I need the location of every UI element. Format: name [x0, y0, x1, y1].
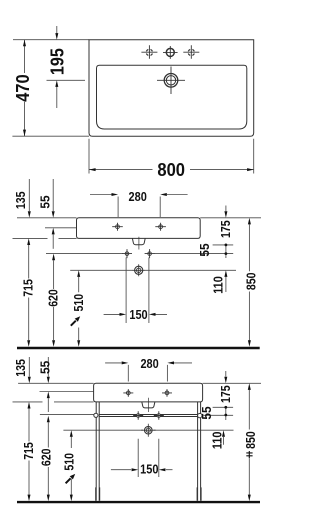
- arrow 175 down: [224, 211, 227, 218]
- bv fixing hole left: [133, 411, 143, 420]
- arrow 150 left-tip: [120, 313, 127, 316]
- arrow 850 up: [248, 218, 251, 225]
- bv arrow 715 down: [28, 495, 31, 502]
- mv drain center line: [70, 269, 236, 271]
- svg-text:55: 55: [199, 406, 214, 419]
- bv fixing hole right: [154, 411, 164, 420]
- arrows middle view: [27, 193, 251, 347]
- mv chain line 244.9-258: [225, 245, 227, 258]
- bv node dot 415: [224, 414, 227, 417]
- bv dim 850 line: [248, 390, 250, 495]
- right joint: [198, 413, 202, 417]
- svg-text:55: 55: [197, 243, 212, 256]
- mv dim 175 upper shaft: [225, 206, 227, 212]
- mv symbol arrow-ne for 510: [71, 316, 80, 325]
- mv node line 175/55: [213, 244, 234, 246]
- bv dim 135 shaft: [28, 357, 30, 377]
- faucet hole left (plan): [141, 45, 157, 59]
- arrow 470 top: [23, 40, 26, 47]
- arrow 850 down: [248, 340, 251, 347]
- arrow 510 down: [77, 340, 80, 347]
- plan view: extension line top: [13, 39, 89, 41]
- bv drain circle: [141, 424, 155, 437]
- bv dim 715 line: [28, 409, 30, 496]
- bv arrow 850 up: [248, 383, 251, 390]
- bv arrow 150 left-tip: [132, 468, 139, 471]
- bv dim 150 line: [111, 469, 173, 471]
- mv dim 715 line: [28, 245, 30, 340]
- arrow 510 up: [77, 270, 80, 277]
- bv arrow 620 down: [47, 495, 50, 502]
- arrow 55 up: [52, 228, 55, 235]
- mv dim 510 line: [78, 277, 80, 340]
- bv extension top edge right: [203, 382, 261, 384]
- mv floor line: [17, 347, 260, 349]
- mv dim 55 bottom shaft: [52, 234, 54, 248]
- bv dim 280 lines: [105, 362, 192, 364]
- mv faucet cross right: [155, 223, 166, 231]
- bv floor line: [17, 501, 260, 503]
- bv chain line 407.3-420: [225, 407, 227, 420]
- bv node dot 407.3: [224, 406, 227, 409]
- bv dim 55 top shaft: [47, 357, 49, 377]
- bv dim 150 ext lines: [138, 439, 159, 477]
- svg-text:175: 175: [218, 220, 233, 238]
- bv node line 415: [204, 414, 234, 416]
- drain (plan): [157, 67, 185, 95]
- bv drain center line: [63, 429, 233, 431]
- dim 800 line: [89, 169, 254, 171]
- bv faucet cross right: [162, 389, 172, 397]
- svg-text:470: 470: [13, 74, 33, 102]
- bv faucet cross left: [123, 389, 133, 397]
- svg-text:280: 280: [140, 356, 158, 371]
- bv arrow 175 down: [224, 377, 227, 384]
- arrow 280 left-tip: [112, 193, 119, 196]
- bv arrow 135 down: [28, 377, 31, 384]
- arrow 110 up: [224, 270, 227, 277]
- bv dim 280 ext lines: [128, 365, 167, 382]
- washbasin front outline (bottom view): [94, 383, 203, 402]
- svg-text:175: 175: [218, 385, 233, 403]
- bv arrow 850 down: [248, 495, 251, 502]
- svg-text:850: 850: [243, 273, 258, 291]
- svg-text:800: 800: [157, 160, 185, 180]
- bv arrow 110 up: [222, 430, 225, 437]
- bv arrow 55 down: [47, 377, 50, 384]
- right foot: [197, 487, 201, 500]
- left foot: [96, 487, 100, 500]
- node dot 244.9: [225, 244, 228, 247]
- svg-text:850: 850: [243, 431, 258, 449]
- left leg: [96, 402, 99, 501]
- mv drain circle: [133, 264, 145, 276]
- dim 195 lines: [56, 26, 58, 108]
- arrows bottom view: [28, 361, 251, 501]
- bv arrow 715 up: [28, 402, 31, 409]
- svg-text:110: 110: [210, 432, 225, 450]
- bv dim 620 line: [47, 422, 49, 495]
- plan view: extension line drain center: [47, 79, 86, 81]
- mv faucet cross left: [112, 223, 123, 231]
- svg-text:150: 150: [129, 307, 147, 322]
- bv arrow 510 down: [70, 495, 73, 502]
- mv dim 150 line: [104, 313, 167, 315]
- arrow 195 bottom: [55, 80, 58, 87]
- right leg: [198, 402, 201, 501]
- bv dim 175 upper shaft: [225, 371, 227, 377]
- mv extension tap deck: [45, 227, 77, 229]
- bv extension top edge left: [18, 382, 94, 384]
- arrow 470 bottom: [23, 130, 26, 137]
- arrows plan: [23, 33, 254, 171]
- arrow 55 down: [52, 211, 55, 218]
- bv dim 510 line: [70, 436, 72, 495]
- svg-text:620: 620: [39, 449, 54, 467]
- bv extension body bottom: [13, 401, 94, 403]
- svg-text:280: 280: [129, 189, 147, 204]
- mv extension top edge left: [17, 217, 77, 219]
- bv rail ext line left: [40, 413, 95, 415]
- mv fixing hole left: [122, 249, 132, 258]
- svg-text:110: 110: [210, 276, 225, 294]
- dim 800 extension lines: [89, 139, 254, 174]
- svg-text:510: 510: [62, 453, 77, 471]
- svg-text:715: 715: [21, 442, 36, 460]
- frame rail: [99, 415, 197, 417]
- washbasin plan outer outline: [89, 40, 254, 137]
- mv fixing holes line: [46, 253, 233, 255]
- bv drain cup: [142, 402, 155, 408]
- bv arrow 510 up: [70, 430, 73, 437]
- bv extension tap deck: [40, 391, 94, 393]
- faucet hole right (plan): [183, 45, 199, 59]
- svg-text:620: 620: [46, 289, 61, 307]
- bv arrow 150 right-tip: [159, 468, 166, 471]
- arrow 800 right: [247, 168, 254, 171]
- bv dim 110 shaft: [223, 437, 225, 445]
- bv arrow 620 up: [47, 416, 50, 423]
- mv dim 55 top shaft: [52, 179, 54, 211]
- node dot 253.6: [225, 252, 228, 255]
- mv dim 280 ext lines: [118, 197, 160, 218]
- bv arrow 280 left-tip: [122, 361, 129, 364]
- arrow 280 right-tip: [160, 193, 167, 196]
- svg-text:195: 195: [48, 48, 68, 75]
- bv arrow 280 right-tip: [167, 361, 174, 364]
- arrow 800 left: [89, 168, 96, 171]
- svg-text:715: 715: [20, 279, 35, 297]
- arrow 195 top: [55, 33, 58, 40]
- bv arrow 55 up: [47, 392, 50, 399]
- svg-text:55: 55: [38, 195, 53, 208]
- svg-text:510: 510: [71, 294, 86, 312]
- arrow 620 up: [52, 254, 55, 261]
- svg-text:55: 55: [38, 361, 53, 374]
- mv dim 850 line: [248, 224, 250, 341]
- arrow 620 down: [52, 340, 55, 347]
- arrow 135 down: [28, 211, 31, 218]
- mv extension body bottom: [13, 237, 77, 239]
- washbasin front outline (middle view): [77, 218, 201, 239]
- bv node line 407.3: [213, 406, 234, 408]
- arrow 715 down: [27, 340, 30, 347]
- arrow 150 right-tip: [149, 313, 156, 316]
- arrow 715 up: [27, 238, 30, 245]
- mv dim 280 lines: [90, 194, 188, 196]
- washbasin plan inner basin: [97, 65, 247, 129]
- faucet hole center (plan): [163, 46, 178, 59]
- svg-text:135: 135: [13, 192, 28, 210]
- mv drain cup: [132, 238, 145, 244]
- mv fixing hole right: [145, 249, 155, 258]
- left joint: [94, 413, 98, 417]
- bv symbol double-tick for 850: [246, 451, 252, 458]
- mv extension top edge right: [200, 217, 261, 219]
- bv dim 55 bottom shaft: [47, 398, 49, 412]
- mv dim 620 line: [53, 260, 55, 340]
- bv symbol arrow-ne for 510: [66, 474, 76, 483]
- mv dim 150 ext lines: [126, 258, 149, 324]
- svg-text:150: 150: [140, 462, 158, 477]
- plan view: extension line bottom: [12, 135, 89, 137]
- mv dim 110 shaft: [225, 277, 227, 292]
- svg-text:135: 135: [13, 359, 28, 377]
- dim 470 line: [24, 40, 26, 137]
